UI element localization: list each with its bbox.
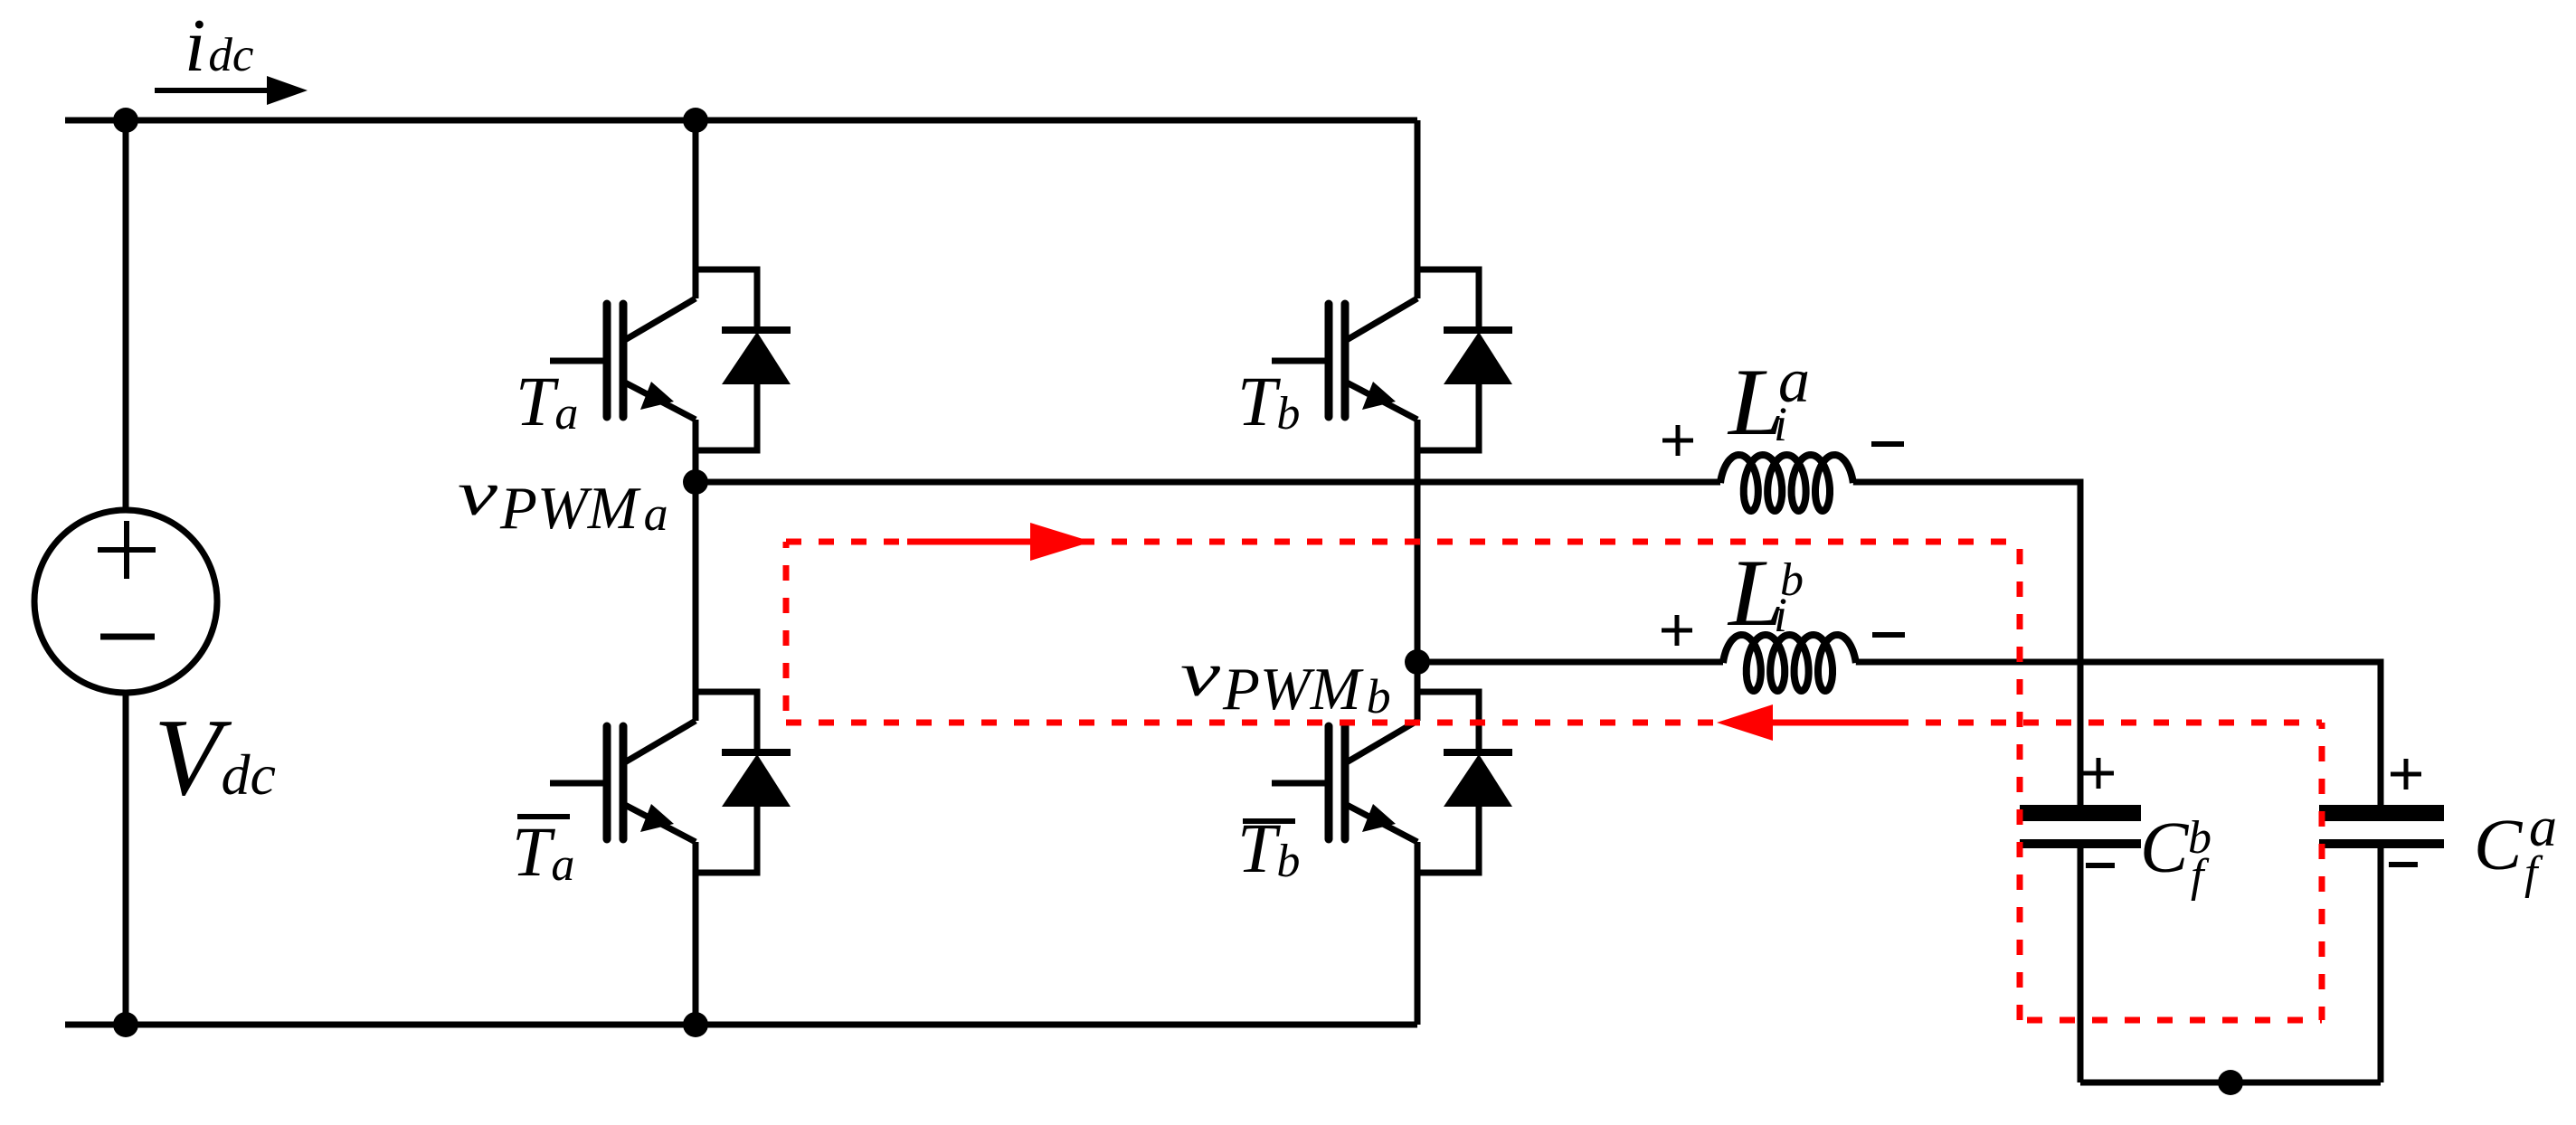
wire red: bottom link <box>2020 1017 2322 1024</box>
wire: Tbar_a emitter to bottom rail <box>693 842 699 1025</box>
wire: Tb emitter to vPWMb node <box>1415 420 1421 662</box>
diode antiparallel with Ta <box>696 269 757 327</box>
transistor Tb (IGBT, top of leg b) <box>1272 358 1332 364</box>
red dotted loop (circulating current path) <box>786 542 2322 1020</box>
wire: vPWMb to inductor Lb <box>1417 659 1723 666</box>
polarity - of Cfa <box>2389 862 2418 867</box>
wire: capacitor bottom link <box>2080 1080 2381 1086</box>
voltage source Vdc <box>34 510 217 693</box>
node vPWMa <box>683 469 708 495</box>
capacitor Cfb <box>2020 805 2141 821</box>
wire: La to Cfb column <box>1853 482 2080 805</box>
diode antiparallel with Tbar_a <box>696 692 757 750</box>
polarity + of Cfa <box>2391 759 2421 789</box>
inductor La (L_i^a) <box>1720 455 1853 511</box>
svg-text:b: b <box>1780 554 1804 606</box>
svg-text:v: v <box>458 459 498 529</box>
svg-text:v: v <box>1180 640 1221 710</box>
capacitor Cfa <box>2319 805 2444 821</box>
wire: vPWMa to inductor La <box>696 479 1720 486</box>
node: bottom-left junction <box>113 1012 138 1037</box>
diode antiparallel with Tbar_b <box>1417 692 1479 750</box>
wire: vPWMa node to Tbar_a collector <box>693 482 699 721</box>
svg-text:C: C <box>2140 808 2190 888</box>
polarity - of Lb <box>1872 632 1905 638</box>
wire: top rail to Tb collector <box>1415 120 1421 298</box>
svg-text:C: C <box>2474 806 2524 885</box>
node: bottom rail / leg a junction <box>683 1012 708 1037</box>
transistor Ta (IGBT, top of leg a) <box>550 358 611 364</box>
wire red: right vertical 2 <box>2319 723 2325 1020</box>
wire: Lb to Cfa column <box>1856 662 2381 805</box>
wire red: bottom horizontal <box>786 720 2322 726</box>
polarity - of Cfb <box>2086 863 2115 868</box>
wire: Tbar_b emitter to bottom rail <box>1415 842 1421 1025</box>
wire: top rail to Ta collector <box>693 120 699 298</box>
wire: top rail to Vdc + terminal <box>123 120 129 510</box>
wire red: left vertical <box>783 542 790 723</box>
wire: Vdc - terminal to bottom rail <box>123 693 129 1025</box>
wire: top DC rail <box>65 118 1417 124</box>
arrow: i_dc direction <box>155 88 271 93</box>
transistor Tbar_a (IGBT, bottom of leg a) <box>550 780 611 787</box>
wire: bottom DC rail <box>65 1022 1417 1028</box>
red arrow right (top path) <box>907 523 1899 741</box>
red arrow left (bottom path) <box>1773 720 1899 726</box>
node: top-left junction <box>113 108 138 133</box>
polarity - of La <box>1871 441 1904 447</box>
polarity + of Vdc <box>98 521 156 579</box>
node: top rail / leg a junction <box>683 108 708 133</box>
transistor Tbar_b (IGBT, bottom of leg b) <box>1272 780 1332 787</box>
wire red: top horizontal <box>786 539 2020 545</box>
node vPWMb <box>1405 649 1430 675</box>
wire: Cfa to bottom link <box>2378 848 2384 1082</box>
inductor Lb (L_i^b) <box>1723 635 1856 691</box>
svg-text:a: a <box>1778 346 1810 416</box>
wire: Cfb to bottom link <box>2078 848 2084 1082</box>
wire: Ta emitter to vPWMa node <box>693 420 699 482</box>
diode antiparallel with Tb <box>1417 269 1479 327</box>
wire red: right vertical 1 <box>2017 542 2023 1020</box>
polarity + of Cfb <box>2083 758 2114 789</box>
polarity + of La <box>1662 425 1693 456</box>
wire: vPWMb node to Tbar_b collector <box>1415 662 1421 721</box>
polarity + of Lb <box>1662 615 1692 646</box>
node: neutral point on capacitor link <box>2218 1070 2243 1095</box>
polarity - of Vdc <box>100 634 155 640</box>
